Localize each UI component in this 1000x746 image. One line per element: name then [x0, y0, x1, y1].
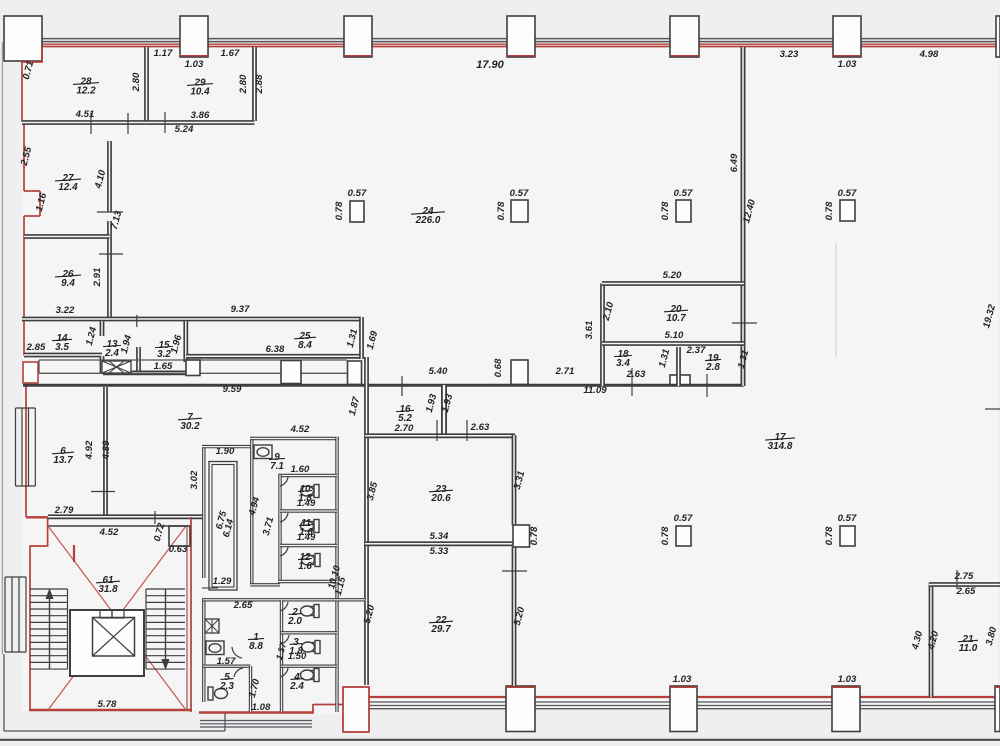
- svg-text:1.03: 1.03: [673, 674, 692, 685]
- svg-text:7.1: 7.1: [270, 461, 284, 472]
- svg-text:20.6: 20.6: [430, 493, 451, 504]
- column at room23 SE: [513, 525, 530, 547]
- toilet block mid divider: [203, 598, 365, 601]
- top wall column: [670, 16, 699, 57]
- interior column 0.57x0.78: [840, 526, 855, 546]
- room 13 label: [103, 339, 121, 359]
- room 15 label: [155, 340, 173, 360]
- svg-text:4.52: 4.52: [99, 527, 119, 538]
- room 26 label: [55, 269, 81, 289]
- room 1 label: [248, 632, 264, 652]
- svg-text:0.78: 0.78: [334, 201, 345, 220]
- drawing frame left edge: [1, 42, 3, 654]
- room22 right wall: [512, 547, 517, 686]
- door arc wc4: [280, 668, 288, 677]
- room1/2 divider: [280, 600, 283, 712]
- svg-text:5.10: 5.10: [665, 330, 684, 341]
- svg-text:4.98: 4.98: [919, 49, 939, 60]
- band column: [511, 360, 528, 385]
- interior column 0.57x0.78: [676, 200, 691, 222]
- svg-text:0.78: 0.78: [824, 201, 835, 220]
- vent shaft hatched: [102, 361, 131, 373]
- svg-text:1.57: 1.57: [217, 656, 236, 667]
- room 29 label: [187, 77, 213, 97]
- svg-text:2.70: 2.70: [394, 423, 414, 434]
- svg-text:30.2: 30.2: [180, 421, 200, 432]
- svg-text:3.22: 3.22: [56, 305, 75, 316]
- room23 right wall upper: [512, 435, 517, 525]
- room 3 label: [289, 637, 303, 657]
- svg-text:4.89: 4.89: [101, 440, 112, 460]
- svg-text:2.80: 2.80: [131, 72, 142, 92]
- svg-text:4.52: 4.52: [290, 424, 310, 435]
- svg-text:3.61: 3.61: [584, 321, 595, 340]
- toilet room12: [302, 554, 321, 567]
- svg-text:0.78: 0.78: [660, 526, 671, 545]
- stair treads right flight: [146, 588, 185, 590]
- svg-text:5.40: 5.40: [429, 366, 448, 377]
- dim tick 19.32: [985, 408, 1000, 410]
- toilet block right wall: [335, 437, 338, 712]
- svg-text:9.4: 9.4: [61, 278, 75, 289]
- wall room28 bottom: [22, 120, 138, 125]
- room 21 label: [958, 634, 978, 654]
- svg-text:0.57: 0.57: [838, 513, 857, 524]
- rooms13-15 bottom wall: [103, 370, 186, 375]
- svg-text:2.4: 2.4: [289, 681, 304, 692]
- dim tick: [154, 511, 156, 524]
- dim tick 2.75: [956, 570, 958, 589]
- svg-text:12.4: 12.4: [58, 182, 78, 193]
- long wall left of rooms 16/23/22: [364, 357, 369, 685]
- room 28 label: [73, 76, 99, 96]
- svg-text:6.38: 6.38: [266, 344, 285, 355]
- wall room6/7 divider: [103, 387, 108, 515]
- wc 2/3 divider: [281, 631, 337, 634]
- toilet block upper-left wall: [202, 445, 250, 448]
- elevator door: [100, 610, 112, 618]
- svg-text:2.75: 2.75: [954, 571, 974, 582]
- svg-text:4.92: 4.92: [84, 440, 95, 460]
- svg-text:2.8: 2.8: [705, 362, 720, 373]
- band column: [281, 361, 301, 384]
- room25 right wall: [359, 317, 364, 359]
- svg-text:2.3: 2.3: [219, 681, 234, 692]
- sink room1: [206, 641, 224, 655]
- main corridor south wall: [23, 384, 744, 387]
- svg-text:1.03: 1.03: [838, 59, 857, 70]
- svg-text:1.03: 1.03: [838, 674, 857, 685]
- top exterior wall: [42, 38, 996, 40]
- svg-text:0.57: 0.57: [510, 188, 529, 199]
- svg-text:5.34: 5.34: [430, 531, 449, 542]
- svg-text:226.0: 226.0: [415, 215, 441, 226]
- svg-text:0.57: 0.57: [838, 188, 857, 199]
- svg-text:11.0: 11.0: [959, 643, 978, 654]
- svg-text:31.8: 31.8: [98, 584, 118, 595]
- dim tick 12.40: [732, 322, 757, 324]
- stair treads left flight: [30, 588, 68, 590]
- door arc wc3: [281, 635, 289, 644]
- wall room15 right: [183, 321, 188, 362]
- bottom wall column: [995, 686, 1000, 732]
- door arc wc11: [280, 513, 288, 522]
- room 7 label: [178, 412, 202, 432]
- shaft niche 1.90x3.02: [209, 462, 237, 591]
- svg-text:1.60: 1.60: [291, 464, 310, 475]
- elevator shaft: [70, 610, 144, 676]
- svg-text:3.02: 3.02: [189, 470, 200, 489]
- svg-text:1.65: 1.65: [154, 361, 173, 372]
- svg-text:2.37: 2.37: [686, 345, 706, 356]
- entrance porch outline: [3, 654, 5, 731]
- svg-text:10.7: 10.7: [666, 313, 686, 324]
- room25 bottom wall: [186, 354, 361, 359]
- svg-text:5.33: 5.33: [430, 546, 449, 557]
- door arc wc2: [280, 602, 288, 611]
- interior column 0.57x0.78: [350, 201, 364, 222]
- svg-text:4.51: 4.51: [75, 109, 95, 120]
- svg-text:3.5: 3.5: [55, 342, 69, 353]
- svg-text:0.78: 0.78: [660, 201, 671, 220]
- room 10 label: [298, 484, 312, 504]
- svg-text:13.7: 13.7: [53, 455, 73, 466]
- toilet room3: [302, 641, 321, 654]
- wall room29 right: [252, 47, 257, 121]
- room 24 label: [411, 206, 445, 226]
- svg-text:0.78: 0.78: [529, 526, 540, 545]
- room23 top wall: [365, 433, 515, 438]
- svg-text:2.4: 2.4: [104, 348, 119, 359]
- wall rooms28-29 bottom: [138, 120, 255, 125]
- wall room24/17 divider (6.49/12.40): [741, 47, 746, 386]
- svg-text:5.24: 5.24: [175, 124, 194, 135]
- wall 14/13 divider lower: [100, 356, 105, 373]
- stairwell inner top line: [48, 525, 187, 527]
- wc 10/11 divider: [280, 509, 337, 512]
- room 12 label: [298, 552, 312, 572]
- toilet room11: [301, 520, 320, 533]
- svg-text:3.23: 3.23: [780, 49, 799, 60]
- stairwell right wall: [190, 517, 192, 712]
- svg-text:1.90: 1.90: [216, 446, 235, 457]
- svg-text:314.8: 314.8: [768, 441, 793, 452]
- svg-text:2.88: 2.88: [254, 74, 265, 94]
- room 2 label: [287, 607, 302, 627]
- svg-text:3.4: 3.4: [616, 358, 630, 369]
- porch steps: [200, 720, 312, 722]
- red section mark: [73, 545, 75, 562]
- elevator door: [112, 610, 124, 618]
- svg-text:9.37: 9.37: [231, 304, 250, 315]
- svg-text:3.86: 3.86: [191, 110, 210, 121]
- room23/22 divider wall: [365, 541, 513, 546]
- red pier on left wall: [23, 362, 38, 383]
- room 4 label: [289, 672, 304, 692]
- bottom exterior wall: [369, 696, 1000, 698]
- scan bottom edge: [0, 739, 1000, 741]
- washing machine room1: [205, 619, 219, 633]
- dimension ticks: [90, 113, 92, 134]
- top wall column: [180, 16, 208, 57]
- toilet block room9 left wall: [250, 437, 253, 585]
- toilet room5: [208, 687, 228, 700]
- svg-text:29.7: 29.7: [430, 624, 451, 635]
- svg-text:1.08: 1.08: [252, 702, 271, 713]
- door arc room1: [232, 647, 242, 658]
- svg-text:0.57: 0.57: [674, 513, 693, 524]
- top wall column: [507, 16, 535, 57]
- svg-text:0.57: 0.57: [348, 188, 367, 199]
- room 22 label: [429, 615, 453, 635]
- door arc wc12: [280, 547, 288, 556]
- svg-text:2.85: 2.85: [26, 342, 46, 353]
- bottom wall column: [832, 686, 860, 732]
- wall room27 bottom: [24, 234, 110, 239]
- wc12 bottom: [278, 580, 337, 583]
- dim tick 5.20: [502, 570, 527, 572]
- wc 11/12 divider: [280, 544, 337, 547]
- svg-text:5.78: 5.78: [98, 699, 117, 710]
- room 11 label: [299, 518, 313, 538]
- svg-text:9.59: 9.59: [223, 384, 242, 395]
- sink room9: [254, 445, 272, 459]
- room21 left wall: [929, 583, 934, 697]
- wall room28/29 divider: [144, 47, 149, 121]
- room20 top wall: [602, 281, 744, 286]
- red corner column: [343, 687, 369, 732]
- svg-text:0.57: 0.57: [674, 188, 693, 199]
- top wall column (cut): [996, 16, 1000, 57]
- left exterior wall: [41, 47, 43, 63]
- svg-text:8.8: 8.8: [249, 641, 263, 652]
- svg-text:2.79: 2.79: [54, 505, 74, 516]
- left corridor bottom: [250, 583, 280, 586]
- svg-text:11.09: 11.09: [583, 385, 607, 396]
- wall 18/19 divider: [676, 347, 681, 386]
- stair down arrow: [165, 589, 167, 663]
- interior column 0.57x0.78: [676, 526, 691, 546]
- svg-text:2.0: 2.0: [287, 616, 302, 627]
- room 14 label: [52, 333, 72, 353]
- svg-text:0.78: 0.78: [496, 201, 507, 220]
- top wall column: [344, 16, 372, 57]
- interior column 0.57x0.78: [840, 200, 855, 221]
- long corridor wall (9.37): [22, 317, 361, 322]
- window W1 left wall: [15, 408, 17, 486]
- room 20 label: [664, 304, 688, 324]
- svg-text:5.20: 5.20: [663, 270, 682, 281]
- bottom wall column: [670, 686, 697, 732]
- wc 3/4 divider: [281, 665, 337, 668]
- band column: [348, 361, 362, 385]
- svg-text:2.80: 2.80: [238, 74, 249, 94]
- svg-text:1.49: 1.49: [297, 532, 316, 543]
- lobby bottom wall: [48, 514, 204, 519]
- svg-text:12.2: 12.2: [76, 86, 96, 97]
- wall 14/13 divider upper: [100, 321, 105, 336]
- svg-text:6.49: 6.49: [729, 153, 740, 172]
- svg-text:1.50: 1.50: [288, 651, 307, 662]
- room 5 label: [219, 672, 234, 692]
- svg-text:17.90: 17.90: [476, 59, 504, 71]
- svg-text:1.29: 1.29: [213, 576, 232, 587]
- shaft niche inner line: [212, 465, 234, 588]
- room 19 label: [705, 353, 721, 373]
- room21 top wall: [929, 582, 1000, 587]
- wall rooms27-26 right upper: [107, 141, 112, 212]
- svg-text:0.63: 0.63: [169, 544, 188, 555]
- toilet corridor left wall upper: [202, 447, 205, 578]
- svg-text:1.6: 1.6: [298, 561, 312, 572]
- wall rooms27-26 right lower: [107, 221, 112, 319]
- band column: [186, 360, 200, 376]
- toilet room4: [301, 669, 320, 682]
- room 9 label: [269, 452, 285, 472]
- room 25 label: [294, 331, 316, 351]
- svg-text:2.71: 2.71: [555, 366, 575, 377]
- window W2 stairwell left: [4, 577, 6, 652]
- toilet room10: [301, 485, 320, 498]
- toilet room2: [301, 605, 320, 618]
- duct shaft 0.63 at stair corner: [169, 526, 190, 546]
- wall 13/15 divider: [136, 347, 141, 373]
- room 16 label: [396, 404, 414, 424]
- band column small: [670, 375, 690, 385]
- double wall 1.93/1.93: [441, 385, 447, 434]
- stairwell bottom exterior wall: [29, 709, 192, 712]
- stairwell red cross: [48, 526, 186, 710]
- svg-text:10.4: 10.4: [190, 87, 210, 98]
- interior column 0.57x0.78: [511, 200, 528, 222]
- svg-text:8.4: 8.4: [298, 340, 312, 351]
- dim tick 1.29: [202, 587, 218, 589]
- room20 left wall: [600, 284, 605, 387]
- svg-text:2.63: 2.63: [626, 369, 646, 380]
- svg-text:2.91: 2.91: [92, 268, 103, 288]
- door arc wc10: [280, 477, 288, 486]
- room 23 label: [429, 484, 453, 504]
- stairwell label: [96, 575, 120, 595]
- toilet corridor left wall lower: [202, 598, 205, 702]
- svg-text:2.65: 2.65: [233, 600, 253, 611]
- svg-text:0.78: 0.78: [824, 526, 835, 545]
- room20 bottom wall: [602, 341, 744, 346]
- toilet block bottom exterior wall: [199, 711, 314, 713]
- wc stack left wall: [278, 475, 281, 583]
- svg-text:1.67: 1.67: [221, 48, 240, 59]
- svg-text:2.65: 2.65: [956, 586, 976, 597]
- door tick: [136, 315, 138, 327]
- svg-text:2.63: 2.63: [470, 422, 490, 433]
- top-left corner column: [4, 16, 42, 61]
- door arc wc5: [234, 668, 243, 677]
- toilet block top wall: [250, 437, 339, 440]
- room 18 label: [614, 349, 632, 369]
- faint layout line: [835, 243, 837, 357]
- top wall column: [833, 16, 861, 57]
- room 6 label: [52, 446, 74, 466]
- room9/10 divider: [278, 474, 337, 477]
- stair up arrow: [49, 595, 51, 669]
- room 17 label: [765, 432, 795, 452]
- room5 right wall: [249, 666, 252, 712]
- room 27 label: [55, 173, 81, 193]
- svg-text:0.68: 0.68: [493, 358, 504, 377]
- bottom wall column: [506, 686, 535, 732]
- room5 top wall: [203, 665, 251, 668]
- svg-text:1.49: 1.49: [297, 498, 316, 509]
- svg-text:1.03: 1.03: [185, 59, 204, 70]
- svg-text:1.17: 1.17: [154, 48, 173, 59]
- room14 bottom wall: [24, 353, 102, 358]
- low partition band: [39, 359, 347, 361]
